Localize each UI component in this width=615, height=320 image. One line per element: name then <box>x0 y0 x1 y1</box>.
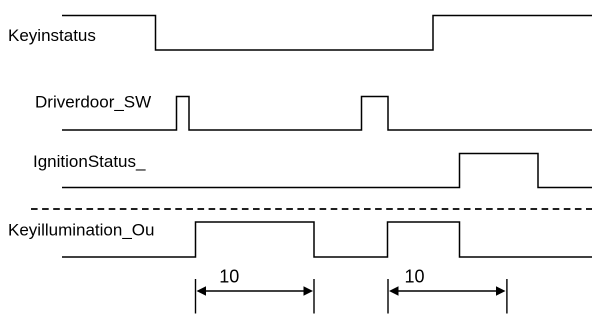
dimension tick left of first interval <box>195 279 197 314</box>
svg-text:Driverdoor_SW: Driverdoor_SW <box>35 93 151 112</box>
dimension tick right of second interval <box>506 279 508 314</box>
svg-text:10: 10 <box>219 267 239 287</box>
dashed separator line <box>31 208 592 210</box>
dimension double arrow for first interval <box>197 286 314 296</box>
svg-text:IgnitionStatus_: IgnitionStatus_ <box>33 152 146 171</box>
svg-text:Keyinstatus: Keyinstatus <box>8 26 96 45</box>
waveform Keyillumination_Ou <box>62 222 592 257</box>
dimension tick left of second interval <box>387 279 389 314</box>
waveform Keyinstatus <box>62 16 592 51</box>
svg-text:10: 10 <box>404 267 424 287</box>
waveform Driverdoor_SW <box>62 97 592 131</box>
waveform IgnitionStatus_ <box>62 154 592 188</box>
dimension tick right of first interval <box>313 279 315 314</box>
dimension double arrow for second interval <box>389 286 506 296</box>
svg-text:Keyillumination_Ou: Keyillumination_Ou <box>8 221 154 240</box>
